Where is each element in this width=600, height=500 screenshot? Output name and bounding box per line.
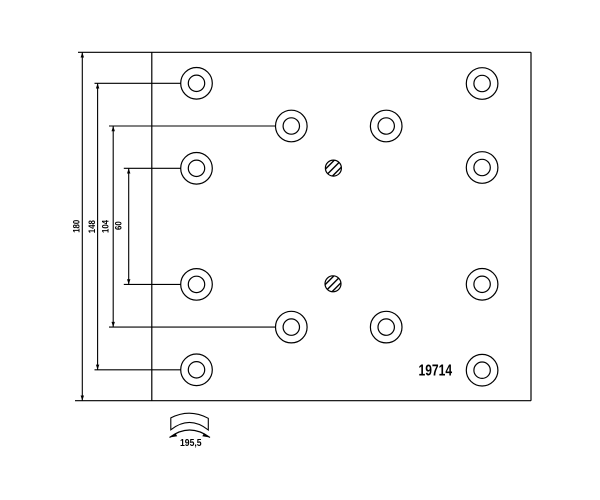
rivet hole c1r6 bbox=[181, 354, 213, 386]
svg-text:60: 60 bbox=[113, 221, 124, 230]
plate right edge bbox=[530, 52, 532, 400]
hatched pin hole bottom bbox=[319, 269, 348, 298]
svg-text:148: 148 bbox=[86, 220, 97, 233]
extension line row1 bbox=[95, 82, 181, 84]
rivet hole c1r4 bbox=[181, 269, 213, 301]
rivet hole c2r5 bbox=[276, 311, 308, 343]
dim arc right arrowhead bbox=[202, 433, 210, 437]
svg-text:104: 104 bbox=[100, 220, 111, 233]
rivet hole c1r1 bbox=[181, 68, 213, 100]
lining arc band symbol bbox=[171, 413, 209, 430]
svg-text:195,5: 195,5 bbox=[180, 438, 202, 449]
hatched pin hole top bbox=[319, 154, 348, 183]
svg-text:19714: 19714 bbox=[419, 362, 453, 379]
dimension line 148 bbox=[97, 83, 99, 370]
rivet hole c4r1 bbox=[466, 68, 498, 100]
extension line row5 bbox=[109, 326, 276, 328]
extension line row4 bbox=[124, 283, 181, 285]
rivet hole c1r3 bbox=[181, 153, 213, 185]
rivet hole c4r4 bbox=[466, 269, 498, 301]
extension line row6 bbox=[95, 369, 181, 371]
svg-text:180: 180 bbox=[71, 220, 82, 233]
extension line row3 bbox=[124, 167, 181, 169]
dimension line 60 bbox=[128, 168, 130, 284]
plate left edge bbox=[151, 52, 153, 400]
curvature dimension arc bbox=[170, 430, 211, 438]
plate outline top edge with left extension bbox=[78, 51, 531, 53]
dimension line 104 bbox=[112, 126, 114, 327]
dim arc left arrowhead bbox=[170, 433, 178, 437]
extension line row2 bbox=[109, 125, 276, 127]
rivet hole c3r2 bbox=[370, 110, 402, 142]
rivet hole c2r2 bbox=[276, 110, 308, 142]
plate outline bottom edge with left extension bbox=[75, 400, 531, 402]
rivet hole c3r5 bbox=[370, 311, 402, 343]
rivet hole c4r3 bbox=[466, 152, 498, 184]
rivet hole c4r6 bbox=[466, 354, 498, 386]
dimension line 180 bbox=[81, 52, 83, 400]
